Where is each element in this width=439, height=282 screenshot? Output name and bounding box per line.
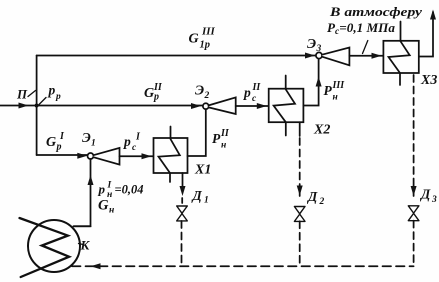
svg-text:Х1: Х1	[194, 163, 211, 178]
svg-text:1: 1	[91, 139, 96, 149]
arrow down on X2 drain	[297, 186, 303, 196]
dashed condensate return line to K	[72, 265, 414, 267]
X3 drain dashed to Д3	[413, 75, 415, 186]
arrow down on X1 drain	[180, 186, 186, 196]
wire: X3 output to atmosphere	[419, 12, 433, 57]
svg-text:Э: Э	[307, 37, 316, 52]
valve Д1	[177, 206, 188, 221]
svg-text:III: III	[201, 26, 216, 38]
svg-text:П: П	[16, 87, 28, 102]
svg-text:с: с	[252, 94, 257, 104]
arrow before X1	[142, 153, 152, 159]
boiler/condenser K circle	[28, 220, 80, 272]
arrow up on Э1 suction	[88, 175, 94, 185]
wire: Э1 suction from boiler K	[74, 159, 91, 226]
valve Д2	[294, 207, 305, 222]
svg-text:Р: Р	[212, 131, 221, 146]
svg-text:р: р	[98, 182, 106, 197]
svg-text:I: I	[59, 131, 65, 142]
X2 coil zigzag	[274, 76, 295, 136]
svg-text:G: G	[46, 135, 56, 150]
svg-text:р: р	[243, 85, 251, 100]
svg-text:р: р	[123, 134, 131, 149]
svg-text:Э: Э	[195, 84, 204, 99]
svg-text:р: р	[55, 92, 61, 102]
wire: Э1 feed line GpI	[37, 154, 88, 156]
X1 drain stub to Д1	[182, 173, 184, 189]
svg-text:Рс=0,1 МПа: Рс=0,1 МПа	[327, 21, 395, 36]
svg-text:=0,04: =0,04	[115, 183, 144, 197]
svg-text:р: р	[56, 142, 62, 153]
arrow up to atmosphere	[430, 10, 436, 20]
ejector Э1 (circle + cone)	[88, 153, 94, 159]
node: left junction vertical wire	[36, 56, 38, 156]
arrow on top line before Э3	[305, 53, 315, 59]
svg-text:Р: Р	[324, 83, 333, 98]
svg-text:н: н	[333, 93, 338, 103]
svg-text:II: II	[252, 82, 262, 93]
tick slash at П label	[28, 91, 36, 97]
arrow on П line before junction	[19, 103, 29, 109]
dashed line valve Д3 to bottom corner	[413, 221, 415, 266]
svg-text:G: G	[144, 86, 154, 101]
wire: K to Э1 suction corner	[74, 225, 91, 227]
svg-text:н: н	[109, 206, 114, 216]
svg-text:1р: 1р	[200, 40, 211, 51]
svg-text:II: II	[220, 128, 230, 139]
svg-text:н: н	[221, 141, 226, 151]
svg-text:3: 3	[431, 195, 437, 205]
wire: X1 output PнII up to Э2	[188, 109, 206, 156]
svg-text:3: 3	[316, 44, 322, 54]
svg-text:Х2: Х2	[313, 123, 330, 138]
heat exchanger X1 box	[154, 138, 188, 173]
X2 drain stub to Д2	[299, 122, 301, 136]
wire: X2 output PнIII up to Э3	[303, 59, 318, 106]
svg-text:Х3: Х3	[420, 73, 437, 88]
svg-text:Э: Э	[82, 130, 91, 145]
X3 coil zigzag	[389, 22, 410, 86]
svg-text:р: р	[153, 92, 159, 103]
tick to K label	[79, 244, 84, 245]
node junction П line	[35, 104, 39, 108]
X1 coil zigzag	[159, 127, 180, 183]
dashed line valve Д1 to bottom	[181, 221, 183, 266]
arrow on П line before Э2	[191, 103, 201, 109]
svg-text:В атмосферу: В атмосферу	[329, 4, 422, 19]
svg-text:1: 1	[204, 196, 209, 206]
svg-text:G: G	[189, 32, 199, 47]
arrow left on return line	[91, 263, 101, 269]
svg-text:К: К	[80, 238, 91, 253]
wire: Э1 output PcI to X1	[120, 155, 153, 157]
arrow up on Э3 suction	[316, 77, 322, 87]
heat exchanger X2 box	[269, 89, 304, 123]
heat exchanger X3 box	[383, 41, 418, 73]
wire: Э2 output PcII to X2	[236, 105, 268, 107]
svg-text:с: с	[132, 143, 137, 153]
arrow before X2	[257, 103, 267, 109]
svg-text:I: I	[135, 132, 141, 143]
tick slash at Pp label	[39, 98, 46, 105]
arrow down on X3 drain	[411, 186, 417, 196]
dashed drain X2	[299, 138, 301, 186]
svg-text:2: 2	[204, 91, 210, 101]
wire: top line G1p III to Э3	[37, 55, 316, 57]
dashed line valve Д2 to bottom	[299, 221, 301, 266]
arrow before Э1	[77, 153, 87, 159]
svg-text:2: 2	[319, 197, 325, 207]
svg-text:III: III	[332, 80, 346, 91]
dashed drain X1 to valve	[181, 198, 183, 205]
ejector Э2	[203, 103, 209, 109]
valve Д3	[408, 206, 419, 221]
wire: main working-steam line П (left inlet to Э2)	[0, 105, 203, 107]
svg-text:I: I	[107, 181, 112, 191]
K internal zigzag	[20, 218, 70, 277]
svg-text:G: G	[98, 198, 109, 214]
arrow before X3	[372, 53, 382, 59]
wire: Э3 output Pc to X3	[349, 55, 382, 57]
svg-text:Д: Д	[306, 189, 318, 204]
ejector Э3	[316, 52, 322, 58]
tick from label Pc=0,1 МПа to line	[363, 41, 368, 54]
svg-text:Д: Д	[419, 187, 431, 202]
svg-text:р: р	[48, 83, 56, 98]
svg-text:Д: Д	[191, 188, 203, 203]
